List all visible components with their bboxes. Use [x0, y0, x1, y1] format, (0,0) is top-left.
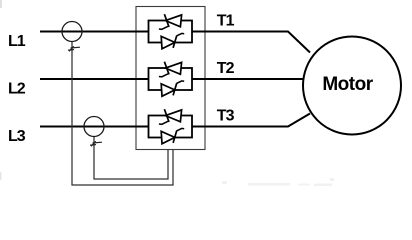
svg-text:T2: T2 [217, 60, 235, 77]
svg-text:L3: L3 [8, 128, 26, 145]
svg-text:L1: L1 [8, 33, 26, 50]
svg-text:T3: T3 [217, 107, 235, 124]
svg-text:T1: T1 [217, 13, 235, 30]
svg-text:Motor: Motor [322, 74, 373, 95]
svg-text:L2: L2 [8, 81, 26, 98]
